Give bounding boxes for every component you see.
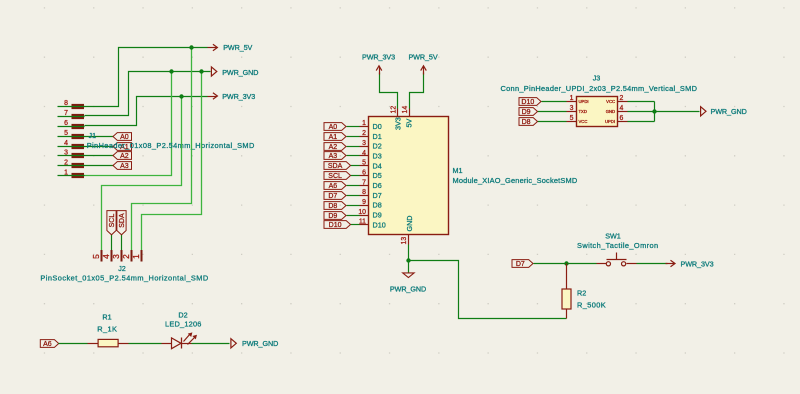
svg-text:D1: D1 [373,132,382,141]
svg-text:R_500K: R_500K [577,300,606,309]
svg-text:3: 3 [570,105,574,112]
svg-text:5: 5 [64,130,68,137]
svg-text:A0: A0 [329,124,338,131]
svg-text:A3: A3 [329,153,338,160]
svg-text:A2: A2 [120,153,129,160]
svg-text:4: 4 [64,140,68,147]
svg-text:D0: D0 [373,122,382,131]
svg-text:5: 5 [362,160,366,167]
svg-text:D9: D9 [328,213,337,220]
svg-text:SW1: SW1 [605,231,621,240]
svg-text:3V3: 3V3 [394,117,403,130]
svg-text:PWR_5V: PWR_5V [223,43,252,52]
svg-text:D10: D10 [373,220,386,229]
svg-text:LED_1206: LED_1206 [165,320,202,329]
svg-text:SDA: SDA [328,163,343,170]
svg-text:PWR_3V3: PWR_3V3 [362,53,395,62]
svg-text:R1: R1 [102,313,111,322]
svg-text:10: 10 [358,209,366,216]
svg-text:GND: GND [405,216,414,232]
svg-text:D4: D4 [373,161,382,170]
svg-text:5: 5 [570,115,574,122]
svg-text:D6: D6 [373,181,382,190]
svg-text:D8: D8 [328,203,337,210]
svg-text:A2: A2 [329,144,338,151]
svg-text:D7: D7 [373,191,382,200]
svg-text:VCC: VCC [579,119,588,124]
svg-text:A0: A0 [120,134,129,141]
svg-text:2: 2 [121,254,131,259]
svg-text:SDA: SDA [119,213,126,228]
svg-text:6: 6 [620,115,624,122]
svg-text:9: 9 [362,199,366,206]
svg-text:3: 3 [362,140,366,147]
svg-text:7: 7 [64,110,68,117]
svg-text:Module_XIAO_Generic_SocketSMD: Module_XIAO_Generic_SocketSMD [453,176,578,185]
svg-text:J2: J2 [118,264,126,273]
svg-text:PWR_GND: PWR_GND [711,107,747,116]
svg-text:1: 1 [131,254,141,259]
svg-text:R_1K: R_1K [97,325,117,334]
svg-text:D7: D7 [328,193,337,200]
svg-text:D9: D9 [522,109,531,116]
svg-text:TXD: TXD [579,109,587,114]
svg-text:2: 2 [362,130,366,137]
svg-text:1: 1 [570,95,574,102]
svg-text:14: 14 [402,106,409,114]
svg-text:J1: J1 [89,131,97,140]
svg-text:8: 8 [362,189,366,196]
svg-text:Switch_Tactile_Omron: Switch_Tactile_Omron [577,241,659,250]
svg-text:3: 3 [64,150,68,157]
svg-text:A1: A1 [329,134,338,141]
svg-text:6: 6 [64,120,68,127]
svg-text:PWR_3V3: PWR_3V3 [222,92,255,101]
svg-text:3: 3 [111,254,121,259]
svg-text:D10: D10 [329,222,342,229]
svg-text:7: 7 [362,179,366,186]
svg-text:4: 4 [362,150,366,157]
svg-text:D9: D9 [373,211,382,220]
svg-text:6: 6 [362,169,366,176]
svg-text:D5: D5 [373,171,382,180]
svg-text:11: 11 [359,219,366,226]
svg-text:UPDI: UPDI [579,99,589,104]
svg-text:5: 5 [91,254,101,259]
svg-text:8: 8 [64,100,68,107]
svg-text:12: 12 [391,106,398,114]
svg-text:UPDI: UPDI [605,119,615,124]
svg-text:SCL: SCL [109,214,116,228]
svg-text:R2: R2 [577,289,586,298]
svg-text:A6: A6 [329,183,338,190]
svg-text:D10: D10 [521,99,534,106]
svg-text:PinSocket_01x05_P2.54mm_Horizo: PinSocket_01x05_P2.54mm_Horizontal_SMD [40,274,208,283]
svg-text:M1: M1 [453,166,463,175]
svg-text:2: 2 [620,95,624,102]
svg-text:PWR_GND: PWR_GND [390,285,426,294]
svg-text:1: 1 [362,120,366,127]
svg-text:1: 1 [64,170,68,177]
svg-text:A3: A3 [120,163,129,170]
svg-text:PinHeader_01x08_P2.54mm_Horizo: PinHeader_01x08_P2.54mm_Horizontal_SMD [87,141,255,150]
svg-text:SCL: SCL [328,173,342,180]
svg-text:2: 2 [64,160,68,167]
svg-text:D8: D8 [522,119,531,126]
svg-text:4: 4 [620,105,624,112]
svg-text:D8: D8 [373,201,382,210]
svg-text:PWR_3V3: PWR_3V3 [681,259,714,268]
svg-text:PWR_5V: PWR_5V [408,53,437,62]
svg-text:D2: D2 [373,142,382,151]
svg-text:Conn_PinHeader_UPDI_2x03_P2.54: Conn_PinHeader_UPDI_2x03_P2.54mm_Vertica… [501,84,698,93]
svg-text:5V: 5V [405,119,414,128]
svg-text:A6: A6 [43,341,52,348]
svg-text:VCC: VCC [606,99,615,104]
svg-text:D2: D2 [178,310,187,319]
svg-text:D7: D7 [516,261,525,268]
svg-text:PWR_GND: PWR_GND [222,68,258,77]
svg-text:13: 13 [401,237,408,245]
svg-text:PWR_GND: PWR_GND [242,339,278,348]
svg-text:J3: J3 [593,73,601,82]
svg-text:D3: D3 [373,151,382,160]
svg-text:4: 4 [101,254,111,259]
svg-text:GND: GND [606,109,615,114]
